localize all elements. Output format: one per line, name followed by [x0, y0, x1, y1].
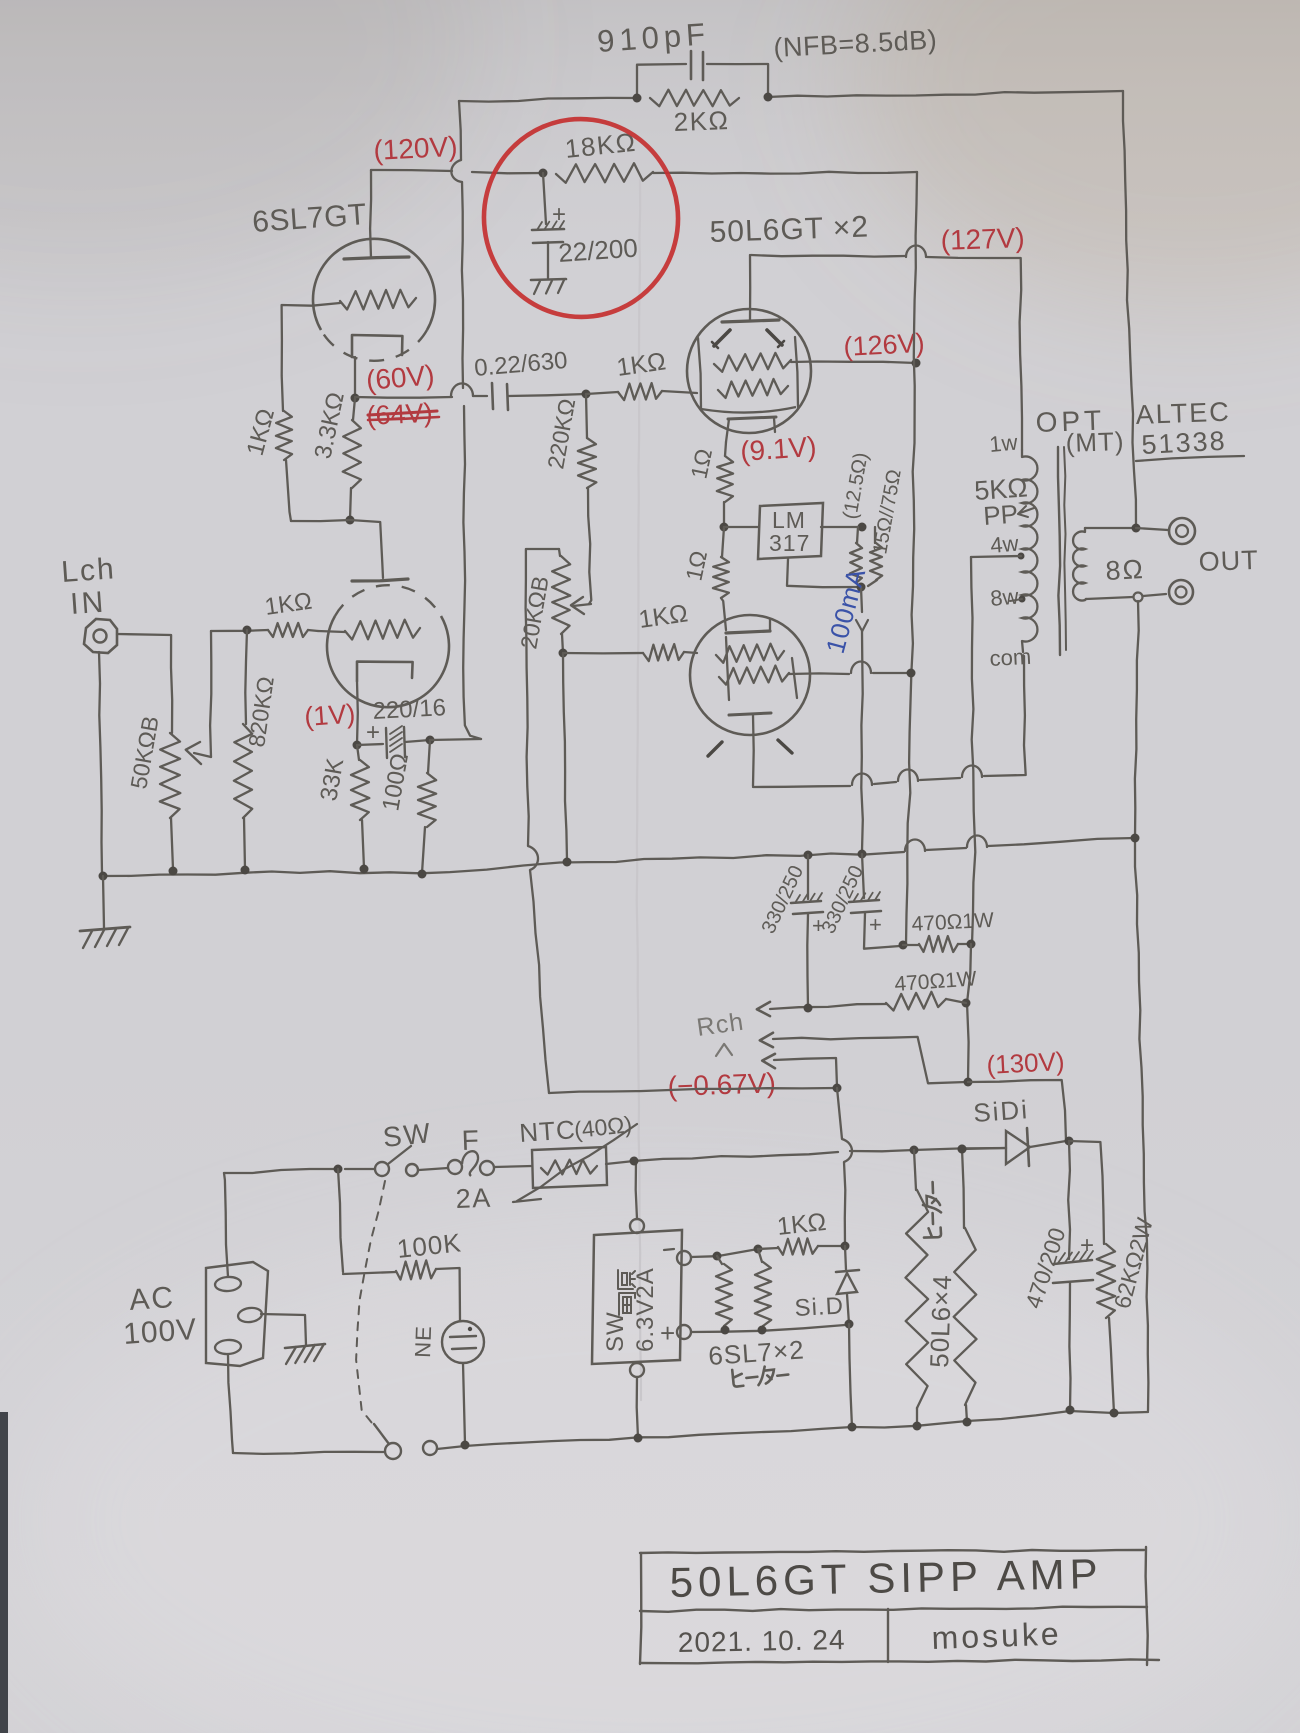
svg-text:470Ω1W: 470Ω1W [911, 909, 995, 936]
V1a grid zigzag [340, 290, 416, 310]
resistor 1K grid stopper upper 50L6 [586, 392, 618, 394]
wire LM317 right to sense resistors [821, 526, 862, 528]
wire wiper to V1b grid line [210, 631, 211, 757]
wire -0.67V bias line [549, 1088, 836, 1093]
capacitor 22/200 decoupling [543, 173, 546, 224]
svg-text:317: 317 [769, 530, 810, 556]
node rail: 33K [360, 865, 369, 874]
neon lamp NE [442, 1321, 484, 1363]
V3 screen grid zigzag [716, 644, 784, 663]
wire LM317 adj to sense bottom node [787, 559, 858, 587]
terminal OUT upper [1169, 518, 1195, 544]
capacitor 470/200 main filter [1068, 1141, 1070, 1259]
V1b grid zigzag [345, 620, 420, 640]
wire V1b plate node down to plate [350, 520, 383, 578]
heater 6SL7 #2 [758, 1249, 762, 1262]
wire earth pin to chassis ground [261, 1314, 306, 1345]
wire V1b cathode to 1V node [356, 681, 359, 744]
heater string 50L6 x4 #2 [958, 1145, 967, 1154]
V3 beam arrows bottom [708, 742, 722, 756]
diode SiDi rectifier [962, 1148, 1006, 1149]
wire 130V over to rectifier output [968, 1080, 1066, 1141]
resistor 15ohm sense [857, 527, 858, 543]
resistor 1ohm upper (V2 cathode) [725, 442, 726, 456]
wire PSU bottom rail [233, 1452, 385, 1454]
wire pot bottom to ground rail [563, 653, 567, 860]
terminal PSU bottom [630, 1363, 644, 1377]
terminal PSU 6.3V minus [677, 1251, 691, 1265]
node rectifier output [1065, 1137, 1074, 1146]
node 220/16 right [426, 736, 435, 745]
svg-text:8Ω: 8Ω [1105, 554, 1146, 586]
V2 screen grid zigzag [714, 353, 791, 372]
tap arrow PP [1020, 508, 1034, 513]
svg-text:51338: 51338 [1141, 426, 1228, 460]
resistor 1K grid stopper lower 50L6 [563, 652, 643, 655]
svg-text:SW: SW [602, 1311, 629, 1352]
node neon bottom [461, 1441, 470, 1450]
svg-text:(127V): (127V) [940, 222, 1025, 256]
svg-text:ALTEC: ALTEC [1135, 397, 1231, 430]
red highlight circle around 18K and 22/200 [473, 108, 690, 328]
V2 cathode bar and legs [728, 417, 776, 419]
svg-text:Lch: Lch [60, 552, 117, 589]
wire V2 plate to OPT primary (127V, hops B+ vertical) [751, 255, 905, 257]
pot 50K wiper arrow [194, 753, 211, 757]
svg-text:NE: NE [410, 1325, 436, 1358]
V2 beam plate arrows [714, 330, 730, 346]
wire 4W tap to screen supply vertical [971, 556, 1021, 557]
svg-text:SiDi: SiDi [972, 1094, 1030, 1128]
svg-text:2021. 10. 24: 2021. 10. 24 [678, 1624, 846, 1658]
wire secondary bottom vertical to ground rail and PSU [1135, 601, 1139, 838]
terminal PSU top [630, 1219, 644, 1233]
svg-text:8w: 8w [989, 584, 1019, 611]
resistor 1ohm lower (to V3 plate) [722, 527, 724, 557]
resistor 3.3K plate load of V1b [353, 398, 355, 420]
wire secondary top to OUT+ [1085, 527, 1136, 529]
node 130V corner [964, 1078, 973, 1087]
svg-text:(120V): (120V) [373, 131, 459, 166]
resistor 75ohm sense [874, 527, 876, 543]
V3 cathode bar [729, 713, 771, 715]
node second filter junction [962, 999, 971, 1008]
node LM317 input junction [720, 523, 729, 532]
wire bias to Rch arrow [762, 1054, 775, 1068]
svg-text:6.3V2A: 6.3V2A [632, 1267, 659, 1352]
svg-text:4w: 4w [989, 531, 1019, 558]
wire 130V riser [967, 944, 971, 1081]
wire bias down to SiD junction (hops PSU rail) [837, 1088, 842, 1139]
wire AC bottom prong to bottom rail [228, 1354, 233, 1453]
svg-text:(−0.67V): (−0.67V) [667, 1067, 776, 1102]
resistor 2K in NFB line [650, 90, 739, 107]
title block frame [640, 1550, 1144, 1553]
node 18K left / 22uF junction [539, 169, 548, 178]
svg-text:2KΩ: 2KΩ [673, 105, 730, 137]
ground below 22/200 [531, 279, 566, 280]
wire B+ vertical from 18K down through 126V node to filter [906, 172, 917, 944]
svg-text:NTC: NTC [518, 1114, 576, 1148]
potentiometer 50KB volume [160, 733, 181, 818]
wire NFB right vertical down to OPT secondary top [1123, 91, 1136, 528]
node rail: input jack ground [99, 872, 108, 881]
svg-text:(9.1V): (9.1V) [739, 431, 817, 467]
svg-text:AC: AC [128, 1281, 176, 1317]
wire 100mA current path down to ground rail [861, 587, 862, 612]
tube V1a 6SL7 upper triode envelope [313, 239, 435, 330]
node 820K top [243, 626, 252, 635]
node rail: 20K pot bottom [563, 858, 572, 867]
wire V3 grid2 to B+ node (hops 100mA line) [789, 672, 849, 675]
wire V2 screen to 126V node [791, 362, 916, 364]
resistor 470ohm 1W lower (to Rch) [757, 1002, 770, 1016]
wire jack ground down to ground rail [99, 652, 102, 874]
wire neon to bottom rail [463, 1363, 465, 1444]
resistor 470ohm 1W upper [903, 944, 919, 946]
node V1b plate junction [346, 516, 355, 525]
V1b cathode bracket [357, 662, 413, 681]
svg-text:mosuke: mosuke [931, 1615, 1062, 1656]
capacitor 330/250 #1 [807, 855, 809, 899]
wire PSU live rail [224, 1169, 338, 1173]
node coupling-cap / 220K junction [582, 390, 591, 399]
wire 220K bottom to pot 20KB wiper arrow [573, 604, 591, 606]
heater string 50L6 x4 #1 [910, 1146, 919, 1155]
resistor 220K grid leak upper 50L6 [586, 394, 587, 438]
node 1K/diode junction [841, 1242, 850, 1251]
node first filter junction [899, 941, 908, 950]
svg-text:PP: PP [982, 499, 1019, 531]
node 20K pot bottom / grid line junction [559, 649, 568, 658]
resistor 820K grid leak [245, 630, 247, 724]
switch lower pole [385, 1443, 401, 1459]
V2 beam box [698, 338, 701, 409]
wire V1a grid out to 1K grid resistor [282, 303, 340, 411]
wire V3 cathode down and right to OPT com (hops three verticals) [752, 715, 755, 786]
node 470 right / 130V riser [967, 940, 976, 949]
module SW power supply 6.3V2A [592, 1230, 682, 1364]
V3 control grid zigzag [719, 666, 789, 685]
fold crease (faint) [637, 180, 641, 1400]
terminal Lch input jack [84, 619, 117, 653]
node rail: 820K [241, 866, 250, 875]
tube V3 lower 50L6 envelope [690, 615, 810, 735]
terminal OUT lower [1169, 580, 1193, 604]
node 126V on B+ vertical [912, 359, 921, 368]
svg-text:Si.D: Si.D [794, 1292, 845, 1322]
wire pot top loop to bias line (hops ground rail) [526, 549, 559, 846]
svg-text:100V: 100V [122, 1313, 198, 1351]
node cap1 bottom on Rch feed [804, 1004, 813, 1013]
wire V1b grid out to grid stopper [318, 631, 345, 632]
node NFB-right junction [764, 93, 773, 102]
diode Si.D bias [845, 1246, 846, 1270]
wire 6.3V top run [691, 1249, 758, 1257]
resistor 1K bias network [758, 1248, 778, 1249]
wire NFB line from OPT secondary to 2K/910pF network [459, 98, 637, 102]
wire jack hot to 50K pot [117, 634, 172, 733]
wire diode bottom to bottom rail [845, 1320, 854, 1329]
connector AC inlet plug [206, 1262, 268, 1366]
wire 60V node to coupling cap (hops NFB vertical) [355, 396, 452, 399]
wire LM317 left to 1-ohm node [724, 526, 758, 528]
V3 beam box [726, 637, 729, 700]
ground symbol chassis [285, 1344, 325, 1348]
wire 1K bottom to V1b plate node [291, 520, 350, 521]
node rail: cap 330 #1 [804, 851, 813, 860]
svg-text:(1V): (1V) [303, 698, 356, 731]
wire 6.3V bottom run [691, 1325, 845, 1332]
heater 6SL7 #1 [717, 1256, 722, 1264]
potentiometer 20KB hum balance [559, 549, 560, 556]
resistor 62K 2W bleeder [1069, 1141, 1104, 1244]
wire B+ 120V rail with 18K [371, 170, 452, 171]
wire NFB return joins cathode node [430, 739, 481, 740]
svg-text:com: com [989, 644, 1032, 671]
wire 130V to Rch arrow [760, 1033, 773, 1047]
node switch feed [334, 1165, 343, 1174]
node rail: 100ohm [418, 870, 427, 879]
resistor 33K [357, 745, 359, 760]
wire AC top prong to switch [224, 1173, 228, 1277]
V1a plate and lead [370, 170, 371, 258]
transformer core lines [1058, 447, 1060, 655]
node 1V cathode junction [353, 741, 362, 750]
svg-text:50L6GT SIPP AMP: 50L6GT SIPP AMP [669, 1550, 1103, 1606]
tube V1b 6SL7 lower triode envelope [327, 616, 449, 707]
transformer OPT secondary winding 8ohm [1084, 528, 1086, 532]
wire secondary bottom to OUT- [1086, 597, 1133, 599]
resistor 1K grid stopper V1b [211, 630, 268, 631]
wire V1a cathode to 60V node [354, 357, 356, 396]
wire main ground rail [103, 852, 904, 876]
node bias junction [833, 1084, 842, 1093]
V2 plate lead and bar [749, 255, 752, 320]
svg-text:+: + [869, 912, 883, 937]
svg-text:22/200: 22/200 [557, 233, 638, 268]
svg-text:1KΩ: 1KΩ [776, 1208, 828, 1241]
wire rectifier out [1030, 1141, 1066, 1147]
wire NFB feedback vertical (hops 120V line and 60V line) down to cathode network [459, 101, 461, 160]
svg-text:220/16: 220/16 [372, 694, 447, 725]
svg-text:2A: 2A [455, 1183, 492, 1214]
terminal PSU 6.3V plus [677, 1325, 691, 1339]
dashed mechanical link of DPST switch [356, 1181, 385, 1428]
node NFB-left junction [633, 94, 642, 103]
resistor 18K [556, 163, 653, 183]
V2 control grid zigzag [718, 379, 788, 398]
V1b plate bar [352, 579, 408, 581]
svg-text:1w: 1w [988, 430, 1018, 457]
capacitor 910pF across 2K [637, 64, 686, 98]
node rail: right end [1131, 834, 1140, 843]
ground symbol main [103, 876, 104, 928]
capacitor 0.22/630 coupling [492, 383, 493, 409]
svg-text:50L6×4: 50L6×4 [924, 1274, 957, 1368]
node rail: cap 330 #2 / 100mA [858, 850, 867, 859]
svg-text:50L6GT ×2: 50L6GT ×2 [709, 210, 869, 249]
V3 plate bar [726, 631, 770, 633]
regulator LM317 CCS [758, 503, 823, 559]
resistor 1K (V1a grid, vertical) [276, 411, 292, 460]
svg-text:(60V): (60V) [365, 359, 436, 396]
tube V2 upper 50L6 envelope [687, 309, 811, 433]
node 60V junction [351, 394, 360, 403]
svg-text:+: + [1080, 1232, 1096, 1259]
node rail: 50K pot [169, 867, 178, 876]
transformer OPT primary winding [1021, 450, 1023, 457]
V1a cathode bracket [352, 335, 402, 357]
svg-text:IN: IN [69, 586, 107, 621]
resistor 100ohm [428, 740, 430, 773]
svg-text:+: + [660, 1318, 677, 1348]
capacitor 330/250 #2 [862, 854, 864, 898]
svg-text:(130V): (130V) [986, 1046, 1066, 1080]
svg-text:(MT): (MT) [1065, 426, 1125, 458]
svg-text:OUT: OUT [1198, 545, 1259, 577]
